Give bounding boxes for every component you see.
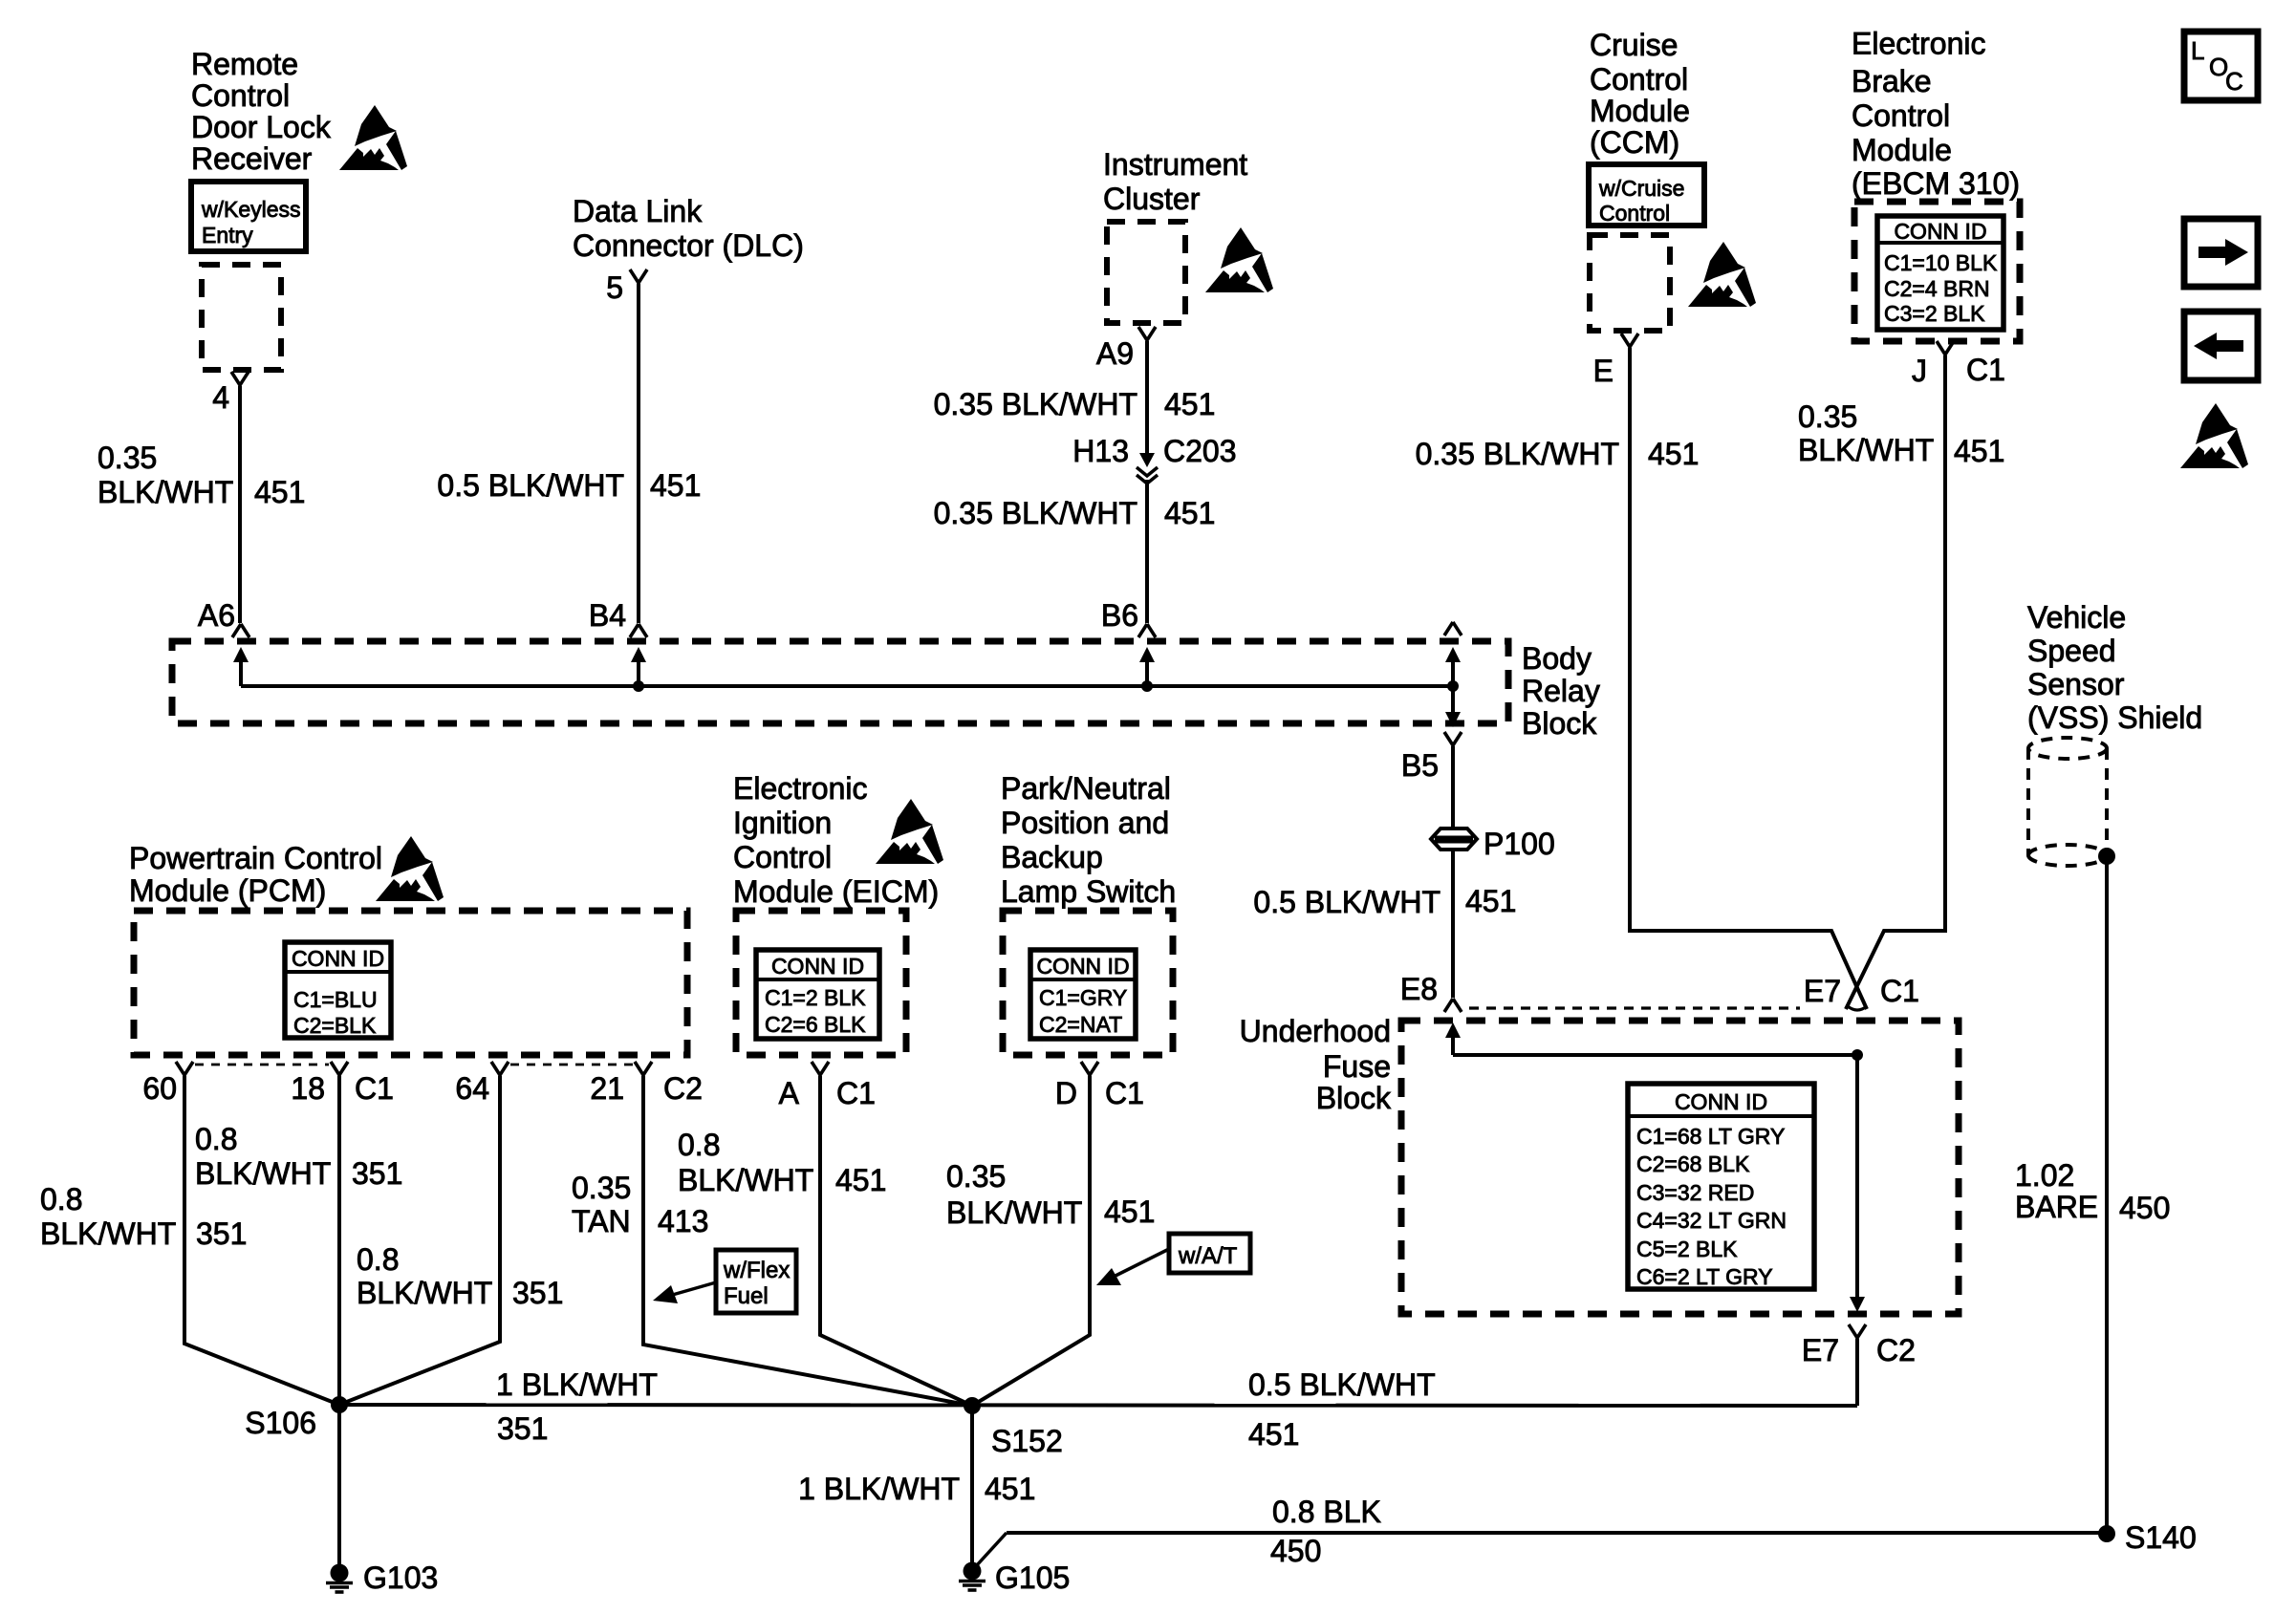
svg-text:Backup: Backup [1001, 840, 1103, 874]
svg-text:(CCM): (CCM) [1590, 125, 1679, 160]
svg-text:C2=BLK: C2=BLK [293, 1013, 377, 1038]
svg-text:B4: B4 [589, 598, 626, 633]
svg-text:413: 413 [658, 1204, 708, 1238]
svg-text:0.5 BLK/WHT: 0.5 BLK/WHT [437, 468, 624, 503]
svg-text:Module: Module [1852, 133, 1952, 167]
svg-text:0.8 BLK: 0.8 BLK [1272, 1495, 1381, 1529]
svg-text:C6=2 LT GRY: C6=2 LT GRY [1636, 1264, 1773, 1289]
svg-text:Receiver: Receiver [191, 141, 313, 176]
svg-text:BLK/WHT: BLK/WHT [40, 1216, 176, 1251]
svg-text:Module (PCM): Module (PCM) [129, 873, 326, 908]
svg-text:Remote: Remote [191, 47, 298, 81]
svg-text:C2: C2 [1876, 1333, 1916, 1367]
svg-text:5: 5 [606, 270, 623, 305]
svg-text:Block: Block [1316, 1081, 1392, 1115]
svg-text:0.35: 0.35 [1798, 399, 1857, 434]
svg-text:A: A [779, 1076, 800, 1110]
svg-text:1 BLK/WHT: 1 BLK/WHT [798, 1472, 960, 1506]
svg-text:1 BLK/WHT: 1 BLK/WHT [496, 1367, 658, 1402]
svg-text:CONN ID: CONN ID [1036, 954, 1129, 979]
svg-text:351: 351 [352, 1156, 402, 1191]
svg-text:BLK/WHT: BLK/WHT [946, 1195, 1082, 1230]
svg-text:Module: Module [1590, 94, 1690, 128]
svg-text:D: D [1055, 1076, 1077, 1110]
svg-text:J: J [1912, 354, 1927, 388]
svg-text:Control: Control [1852, 98, 1950, 133]
svg-text:S106: S106 [245, 1406, 316, 1440]
svg-text:Control: Control [733, 840, 832, 874]
svg-text:Module (EICM): Module (EICM) [733, 874, 939, 909]
svg-text:451: 451 [1648, 437, 1699, 471]
svg-text:450: 450 [1270, 1534, 1321, 1568]
svg-text:Underhood: Underhood [1240, 1014, 1391, 1048]
svg-text:451: 451 [1248, 1417, 1299, 1452]
svg-text:w/A/T: w/A/T [1178, 1243, 1238, 1269]
svg-text:C203: C203 [1163, 434, 1237, 468]
svg-text:G105: G105 [995, 1560, 1070, 1595]
svg-text:C1: C1 [836, 1076, 876, 1110]
svg-text:Door Lock: Door Lock [191, 110, 332, 144]
svg-text:(EBCM 310): (EBCM 310) [1852, 166, 2020, 201]
svg-text:Sensor: Sensor [2027, 667, 2125, 701]
svg-text:0.35 BLK/WHT: 0.35 BLK/WHT [1416, 437, 1619, 471]
svg-text:E8: E8 [1400, 972, 1438, 1006]
svg-text:C1: C1 [1105, 1076, 1144, 1110]
svg-text:451: 451 [254, 475, 305, 509]
svg-text:E: E [1593, 354, 1614, 388]
svg-text:Position and: Position and [1001, 806, 1169, 840]
svg-text:Instrument: Instrument [1103, 147, 1247, 182]
svg-text:450: 450 [2119, 1191, 2170, 1225]
svg-text:S140: S140 [2125, 1520, 2197, 1555]
svg-text:E7: E7 [1802, 1333, 1839, 1367]
svg-text:0.5 BLK/WHT: 0.5 BLK/WHT [1248, 1367, 1436, 1402]
svg-text:CONN ID: CONN ID [1894, 219, 1986, 244]
svg-text:Cruise: Cruise [1590, 28, 1678, 62]
svg-text:C1=BLU: C1=BLU [293, 987, 378, 1012]
svg-text:C1=2 BLK: C1=2 BLK [765, 985, 866, 1010]
svg-text:Speed: Speed [2027, 634, 2116, 668]
svg-text:C4=32 LT GRN: C4=32 LT GRN [1636, 1208, 1787, 1233]
svg-text:C3=2 BLK: C3=2 BLK [1884, 301, 1985, 326]
svg-text:B5: B5 [1401, 748, 1439, 783]
svg-text:TAN: TAN [572, 1204, 631, 1238]
svg-text:Fuse: Fuse [1323, 1049, 1391, 1084]
svg-text:Data Link: Data Link [573, 194, 703, 228]
svg-text:0.35 BLK/WHT: 0.35 BLK/WHT [934, 387, 1137, 421]
svg-text:C2=NAT: C2=NAT [1039, 1012, 1122, 1037]
svg-text:60: 60 [142, 1071, 177, 1106]
svg-text:451: 451 [1954, 434, 2004, 468]
svg-text:C1: C1 [1880, 974, 1919, 1008]
svg-text:L: L [2191, 36, 2204, 65]
svg-text:451: 451 [1465, 884, 1516, 918]
svg-text:Connector (DLC): Connector (DLC) [573, 228, 804, 263]
svg-text:Block: Block [1522, 706, 1597, 741]
svg-text:CONN ID: CONN ID [1675, 1089, 1767, 1114]
svg-text:451: 451 [1104, 1194, 1155, 1229]
svg-text:C3=32 RED: C3=32 RED [1636, 1180, 1754, 1205]
svg-text:Lamp Switch: Lamp Switch [1001, 874, 1176, 909]
svg-text:Control: Control [1599, 201, 1670, 226]
svg-text:64: 64 [455, 1071, 489, 1106]
svg-text:C1: C1 [355, 1071, 394, 1106]
svg-text:0.35: 0.35 [946, 1159, 1006, 1194]
svg-text:351: 351 [196, 1216, 247, 1251]
svg-text:C5=2 BLK: C5=2 BLK [1636, 1237, 1738, 1261]
svg-text:C1=10 BLK: C1=10 BLK [1884, 250, 1998, 275]
svg-text:G103: G103 [363, 1560, 438, 1595]
svg-text:C1: C1 [1966, 353, 2005, 387]
svg-text:BLK/WHT: BLK/WHT [678, 1163, 813, 1197]
svg-text:Electronic: Electronic [733, 771, 868, 806]
svg-text:4: 4 [212, 380, 229, 415]
svg-text:A6: A6 [198, 598, 235, 633]
svg-text:BARE: BARE [2015, 1190, 2098, 1224]
svg-text:BLK/WHT: BLK/WHT [195, 1156, 331, 1191]
svg-text:451: 451 [650, 468, 701, 503]
svg-text:C2=6 BLK: C2=6 BLK [765, 1012, 866, 1037]
svg-text:C2=68 BLK: C2=68 BLK [1636, 1151, 1750, 1176]
svg-text:CONN ID: CONN ID [292, 946, 384, 971]
svg-text:Powertrain Control: Powertrain Control [129, 841, 382, 875]
svg-text:Cluster: Cluster [1103, 182, 1201, 216]
svg-text:Body: Body [1522, 641, 1592, 676]
svg-text:0.35 BLK/WHT: 0.35 BLK/WHT [934, 496, 1137, 530]
svg-text:351: 351 [512, 1276, 563, 1310]
svg-text:C2=4 BRN: C2=4 BRN [1884, 276, 1990, 301]
svg-text:Electronic: Electronic [1852, 27, 1986, 61]
svg-text:0.5 BLK/WHT: 0.5 BLK/WHT [1253, 885, 1440, 919]
svg-text:C1=GRY: C1=GRY [1039, 985, 1127, 1010]
svg-text:Entry: Entry [202, 223, 253, 247]
svg-text:Vehicle: Vehicle [2027, 600, 2126, 635]
svg-text:C2: C2 [663, 1071, 703, 1106]
svg-text:0.8: 0.8 [195, 1122, 237, 1156]
svg-text:E7: E7 [1804, 974, 1841, 1008]
svg-text:0.8: 0.8 [357, 1242, 399, 1277]
svg-text:w/Keyless: w/Keyless [201, 197, 301, 222]
svg-text:Ignition: Ignition [733, 806, 832, 840]
svg-text:451: 451 [985, 1472, 1035, 1506]
svg-text:w/Cruise: w/Cruise [1598, 176, 1684, 201]
svg-text:P100: P100 [1484, 827, 1555, 861]
svg-text:451: 451 [1164, 387, 1215, 421]
svg-text:Control: Control [1590, 62, 1688, 97]
svg-text:0.8: 0.8 [40, 1182, 82, 1216]
svg-text:(VSS) Shield: (VSS) Shield [2027, 700, 2202, 735]
svg-text:BLK/WHT: BLK/WHT [97, 475, 233, 509]
svg-text:BLK/WHT: BLK/WHT [1798, 433, 1934, 467]
svg-text:351: 351 [497, 1411, 548, 1446]
svg-text:B6: B6 [1101, 598, 1138, 633]
svg-text:0.35: 0.35 [97, 441, 157, 475]
svg-text:1.02: 1.02 [2015, 1158, 2074, 1193]
svg-text:Brake: Brake [1852, 64, 1932, 98]
svg-text:C1=68 LT GRY: C1=68 LT GRY [1636, 1124, 1785, 1149]
svg-text:0.35: 0.35 [572, 1171, 631, 1205]
svg-text:451: 451 [1164, 496, 1215, 530]
svg-text:Relay: Relay [1522, 674, 1600, 708]
svg-text:w/Flex: w/Flex [723, 1258, 790, 1283]
svg-text:Park/Neutral: Park/Neutral [1001, 771, 1171, 806]
svg-text:A9: A9 [1096, 336, 1134, 371]
svg-text:C: C [2225, 67, 2243, 96]
svg-text:S152: S152 [991, 1424, 1063, 1458]
svg-text:Fuel: Fuel [724, 1283, 769, 1309]
svg-text:Control: Control [191, 78, 290, 113]
svg-text:451: 451 [835, 1163, 886, 1197]
svg-text:CONN ID: CONN ID [771, 954, 864, 979]
svg-text:H13: H13 [1072, 434, 1129, 468]
svg-text:18: 18 [291, 1071, 325, 1106]
svg-text:BLK/WHT: BLK/WHT [357, 1276, 492, 1310]
svg-text:21: 21 [590, 1071, 624, 1106]
svg-text:0.8: 0.8 [678, 1128, 720, 1162]
